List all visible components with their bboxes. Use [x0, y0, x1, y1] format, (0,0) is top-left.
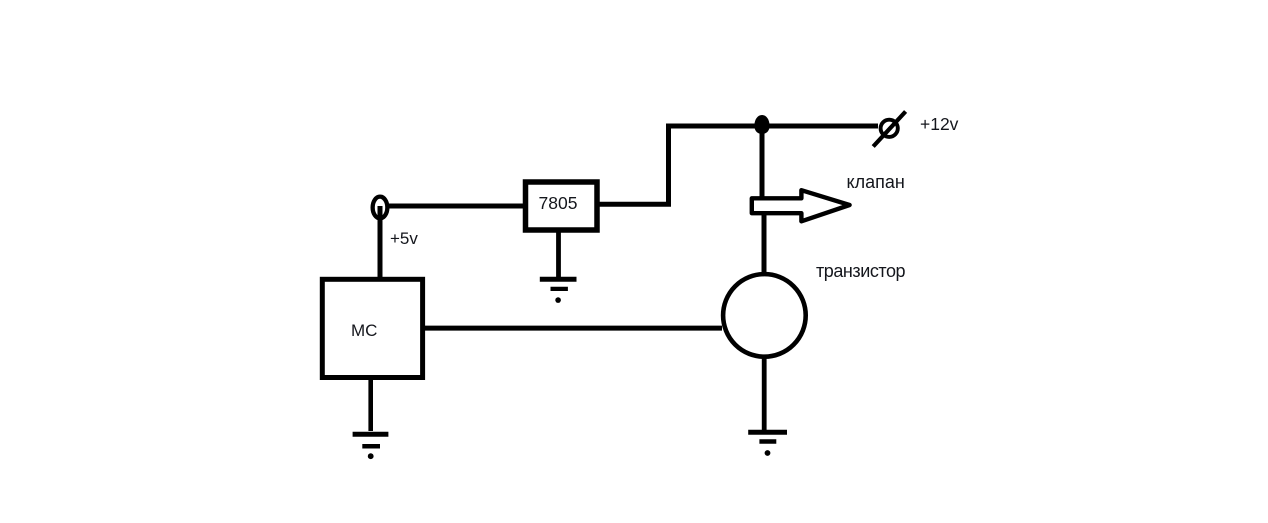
label +5v [390, 229, 418, 249]
ground under transistor [748, 432, 787, 456]
label транзистор [816, 261, 905, 282]
wire +5v terminal down to MC [378, 206, 383, 278]
label +12v [920, 114, 958, 135]
junction node dot [754, 115, 769, 134]
wire top horizontal from corner to +12v terminal [666, 124, 878, 129]
terminal +12v circle [881, 120, 898, 137]
wire junction down to valve [760, 124, 765, 197]
wire transistor emitter stub [762, 357, 767, 433]
valve block arrow [752, 190, 850, 221]
wire valve down to transistor collector [762, 214, 767, 273]
ground under 7805 [540, 279, 577, 303]
wire MC ground stub [368, 379, 373, 431]
wire left vertical drop to 7805 output [666, 124, 671, 207]
wire 7805 input to +5v terminal [388, 204, 524, 209]
regulator 7805 box [526, 182, 598, 230]
label клапан [847, 172, 905, 193]
ground under MC [353, 434, 389, 459]
label 7805 value [539, 193, 578, 214]
wire 7805 ground stub [556, 230, 561, 277]
wire MC to transistor base [424, 326, 722, 331]
transistor circle [723, 274, 806, 357]
label MC [351, 321, 377, 341]
terminal +5v (oval) [373, 197, 388, 219]
wire 7805 output to vertical corner [598, 202, 671, 207]
terminal +12v slash [873, 112, 905, 147]
MC box [322, 279, 422, 377]
